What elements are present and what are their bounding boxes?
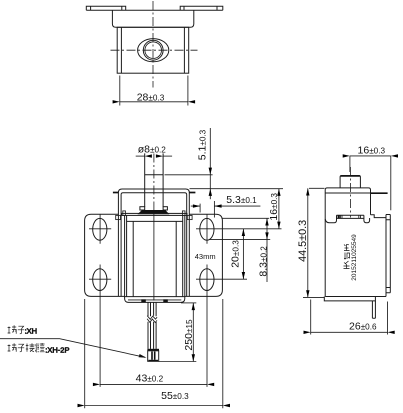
coil winding window top	[127, 220, 183, 222]
svg-text:20±0.3: 20±0.3	[230, 240, 242, 268]
top plate (side)	[325, 188, 370, 193]
lead wire exit (side)	[372, 301, 375, 318]
coil terminal tab left (black)	[141, 299, 146, 302]
mounting back plate	[85, 214, 223, 296]
dim 26±0.6 line	[311, 331, 388, 333]
hole top-left	[93, 218, 107, 240]
svg-text:43±0.2: 43±0.2	[136, 373, 164, 385]
dim 26±0.6 ext lines	[311, 300, 388, 335]
coil winding bottom	[125, 296, 185, 298]
dim 20±0.3 line	[242, 229, 244, 279]
svg-text:250±15: 250±15	[183, 319, 195, 351]
coil top flange	[122, 213, 188, 215]
svg-text:55±0.3: 55±0.3	[161, 390, 189, 402]
rear wire strip	[386, 215, 390, 297]
dim 16±0.3 (side) ext lines	[350, 156, 391, 210]
dim 5.1±0.3 line	[209, 128, 211, 199]
patent label 专利号 (drawn strokes, rotated)	[344, 245, 350, 269]
ext line bottom hole center (20 dim)	[216, 278, 248, 280]
underline / leader	[0, 339, 145, 358]
dim 16±0.3 line (front)	[278, 189, 280, 229]
dim 28±0.3 line	[120, 101, 188, 103]
bracket top plate (front)	[118, 189, 189, 297]
bore ring outer	[143, 40, 163, 60]
solenoid frame (square body, top view)	[117, 27, 189, 73]
bracket left leg	[121, 193, 187, 297]
bore ring inner	[145, 42, 162, 59]
plunger guide tab right	[163, 207, 167, 210]
dim 16±0.3 (side) line	[350, 155, 391, 157]
svg-text:5.1±0.3: 5.1±0.3	[197, 129, 209, 160]
frame inner wall right	[183, 27, 185, 73]
plate ear right (thick)	[371, 192, 388, 194]
svg-text:5.3±0.1: 5.3±0.1	[226, 194, 257, 206]
coil body outer	[125, 215, 185, 302]
svg-text:28±0.3: 28±0.3	[137, 91, 165, 103]
bracket foot tab right	[187, 215, 192, 219]
connector pin 2 (black)	[154, 352, 156, 360]
svg-text:16±0.3: 16±0.3	[358, 145, 386, 157]
glyph 子 (line1)	[18, 326, 24, 334]
plunger (front)	[145, 153, 163, 206]
frame inner wall left	[120, 27, 122, 73]
glyph 子 (line2)	[18, 344, 24, 352]
centerline plunger (side)	[349, 167, 351, 218]
dim 8.3±0.2 ext lines	[210, 218, 271, 239]
glyph 續	[35, 343, 44, 352]
coil terminal tab right (black)	[163, 299, 168, 302]
hole centerlines right column	[196, 215, 216, 387]
svg-text:43mm: 43mm	[195, 252, 216, 261]
leader arrowhead	[139, 354, 147, 358]
bracket foot tab left	[116, 215, 121, 219]
box bar black clip	[338, 215, 340, 218]
dim 55±0.3 line	[85, 405, 223, 407]
dim 5.3±0.1 line	[191, 205, 261, 207]
ext line hole-center (16/20 dims)	[216, 228, 282, 230]
glyph 接	[26, 343, 35, 352]
svg-text:44.5±0.3: 44.5±0.3	[297, 220, 309, 262]
bracket box notched bottom	[325, 215, 369, 223]
hole top-right	[200, 218, 214, 240]
connector pin 1 (black)	[151, 352, 153, 360]
hole centerlines left column	[89, 215, 111, 387]
plunger nub top thick edge	[341, 175, 360, 177]
base plate (side)	[324, 297, 375, 301]
ext line plunger top (5.1)	[165, 174, 213, 176]
centerline vertical	[152, 1, 154, 88]
hole bottom-right	[200, 269, 214, 291]
wing left (top view flange ear)	[86, 6, 125, 10]
bracket box right edge (side)	[370, 193, 372, 215]
svg-text:8.3±0.2: 8.3±0.2	[257, 246, 269, 277]
connector body	[148, 351, 159, 362]
svg-text:2015211025549: 2015211025549	[351, 234, 358, 281]
plunger guide tab left	[140, 207, 145, 210]
dim 5.3±0.1 ext lines	[200, 201, 214, 218]
svg-text:16±0.3: 16±0.3	[268, 193, 280, 221]
body left edge	[324, 193, 326, 297]
step to rear strip	[371, 215, 387, 218]
boss outer ellipse	[138, 39, 169, 62]
hole bottom-left	[93, 269, 107, 291]
plunger nub (side)	[340, 176, 360, 188]
bobbin lines	[133, 221, 176, 296]
coil base inner line	[128, 299, 181, 301]
dim 8.3±0.2 line	[266, 218, 268, 282]
ext line plate top / 16-dim top (long)	[190, 188, 284, 190]
connector bottom bar	[148, 360, 158, 362]
dim 250±15 ext bottom	[159, 361, 197, 363]
coil inner wall	[127, 215, 183, 296]
glyph 端 (line1)	[8, 325, 17, 334]
center line vertical (front view)	[153, 154, 155, 216]
dim 28±0.3 extension lines	[119, 76, 121, 106]
wing right (top view flange ear)	[180, 6, 223, 10]
plate left ear	[113, 192, 119, 194]
svg-text::XH: :XH	[25, 327, 38, 336]
connector XH-2P collar	[147, 349, 159, 351]
svg-text::XH-2P: :XH-2P	[45, 345, 69, 354]
svg-text:ø8±0.2: ø8±0.2	[138, 144, 167, 156]
plate right ear	[189, 192, 195, 194]
stopper plate (black)	[138, 210, 170, 214]
dim 250±15 line	[192, 303, 194, 362]
svg-text:26±0.6: 26±0.6	[349, 320, 377, 332]
glyph 端 (line2)	[8, 343, 17, 352]
box bar end ticks	[340, 215, 360, 218]
dim ø8±0.2 line+arrows	[136, 155, 145, 157]
flange plate top edge	[86, 9, 223, 11]
dim 44.5±0.3 ext lines	[303, 188, 325, 297]
dim 44.5±0.3 line	[307, 188, 309, 297]
dim 43±0.2 line	[100, 383, 207, 385]
dim 55±0.3 ext lines	[85, 299, 223, 408]
centerline horizontal	[111, 49, 198, 51]
flange body (bracket plate, top view)	[112, 10, 193, 27]
body bottom	[325, 296, 386, 298]
wire lines with break	[148, 302, 156, 316]
dim 250±15 ext top	[181, 302, 196, 304]
